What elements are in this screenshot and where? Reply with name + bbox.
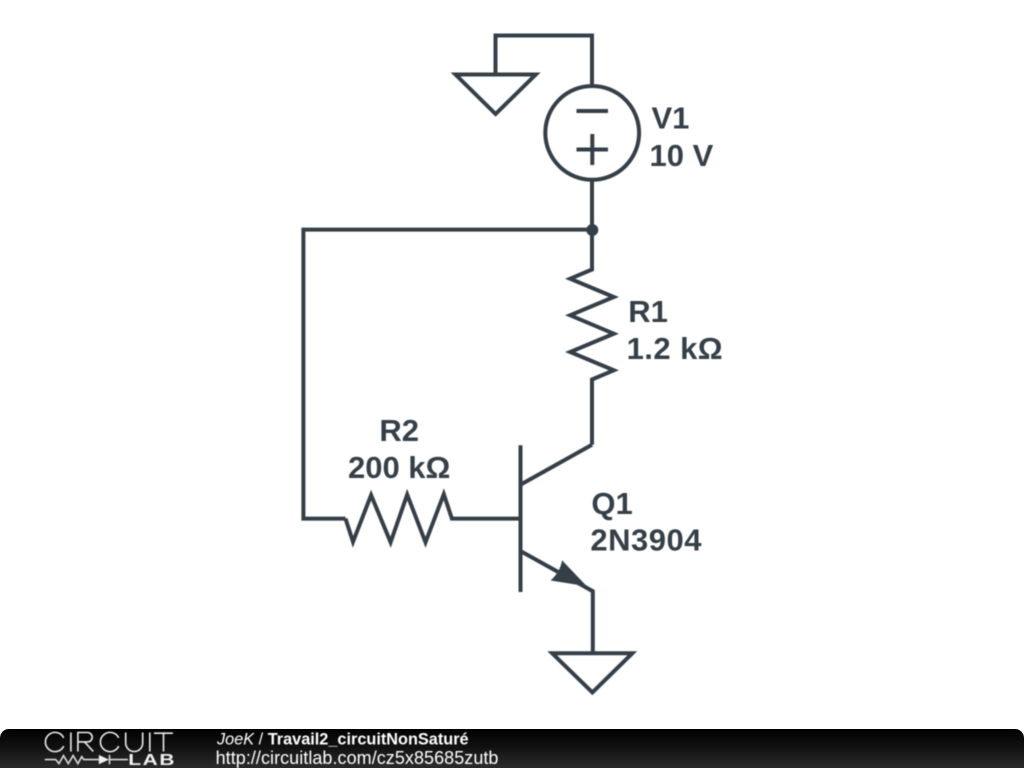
wire node to left rail and R2 lead — [303, 230, 592, 519]
logo letter U — [126, 733, 143, 752]
resistor R1 — [570, 230, 614, 445]
svg-text:10 V: 10 V — [650, 138, 714, 173]
svg-text:1.2 kΩ: 1.2 kΩ — [627, 331, 724, 366]
svg-text:R1: R1 — [628, 294, 668, 329]
ground GND bottom — [552, 653, 632, 692]
emitter arrow of Q1 — [551, 560, 587, 586]
labels — [348, 101, 723, 558]
node junction dot — [586, 224, 598, 236]
logo diode triangle — [99, 755, 109, 764]
logo letter C — [100, 732, 118, 751]
svg-text:http://circuitlab.com/cz5x8568: http://circuitlab.com/cz5x85685zutb — [216, 748, 499, 768]
resistor R2 — [346, 494, 521, 542]
wire V1 to node — [590, 180, 594, 230]
logo resistor-diode line — [45, 755, 128, 764]
transistor Q1 — [519, 445, 523, 592]
logo letter C — [45, 732, 63, 751]
logo letter I — [149, 733, 151, 752]
voltage source V1 — [545, 86, 639, 180]
logo LAB text — [128, 751, 176, 768]
CircuitLab logo: CIRCUIT wordmark — [45, 732, 173, 751]
svg-text:V1: V1 — [652, 101, 690, 136]
ground GND top-left — [456, 75, 536, 115]
wire top loop to V1 — [496, 36, 593, 86]
logo letter I — [70, 733, 72, 752]
logo letter R — [78, 733, 93, 752]
footer bar background — [0, 729, 1024, 768]
svg-text:200 kΩ: 200 kΩ — [348, 450, 450, 485]
svg-text:2N3904: 2N3904 — [590, 523, 702, 558]
svg-text:JoeK / Travail2_circuitNonSatu: JoeK / Travail2_circuitNonSaturé — [216, 731, 469, 749]
logo letter T — [154, 733, 173, 751]
svg-text:Q1: Q1 — [591, 486, 632, 521]
svg-text:R2: R2 — [379, 413, 419, 448]
svg-text:LAB: LAB — [128, 751, 176, 768]
